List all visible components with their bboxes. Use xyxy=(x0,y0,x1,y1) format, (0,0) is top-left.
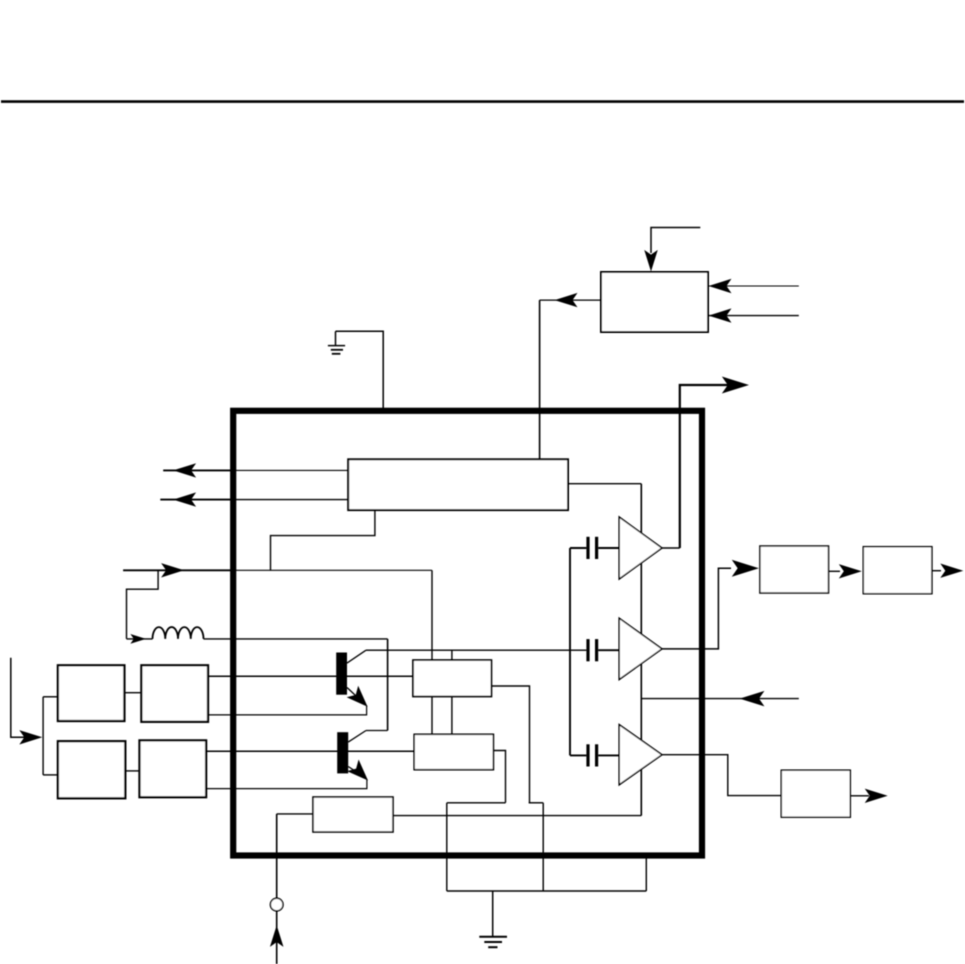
arrow top output xyxy=(722,377,749,394)
arrow into U-top input 1 xyxy=(709,279,732,293)
wire U-top output to wide register xyxy=(540,299,601,301)
arrow right left-input xyxy=(19,730,42,744)
wire B1 output to rail xyxy=(662,547,680,549)
wire mid input arrow row xyxy=(641,698,799,700)
box A xyxy=(58,665,125,721)
wire collector stub to box U1 xyxy=(451,650,453,660)
terminal lower lead xyxy=(276,911,278,964)
box U3 (bottom left) xyxy=(313,797,393,832)
wire left out 1 inside xyxy=(233,469,348,471)
wire B2 output to R1 xyxy=(662,568,731,649)
capacitor C3 xyxy=(570,744,619,766)
wire Q1 base line xyxy=(208,675,413,677)
wire U1 output to pad xyxy=(491,686,529,803)
wire input row y570 inside xyxy=(233,569,432,571)
box U2 xyxy=(414,734,493,769)
wire input row y570 outside xyxy=(123,569,233,571)
arrow R3 out xyxy=(865,789,888,803)
wire U2 output to pad xyxy=(493,751,505,803)
wire stub to box C xyxy=(43,774,58,776)
terminal circle xyxy=(270,898,283,911)
arrow into U-top input 2 xyxy=(709,308,732,322)
wire left out 2 inside xyxy=(233,499,348,501)
arrow down into U-top xyxy=(644,250,658,272)
buffer amp B1 xyxy=(619,517,662,579)
wire A-B xyxy=(124,692,141,694)
wire U3 right to rail xyxy=(393,815,641,817)
wire left out 1 outside xyxy=(163,469,233,471)
wire splitter vertical xyxy=(42,697,44,775)
arrow up terminal xyxy=(270,925,284,947)
wire Q2 base line xyxy=(206,750,414,752)
wire left out 2 outside xyxy=(160,499,233,501)
wire step down to inductor xyxy=(127,570,159,639)
IC main box (thick) xyxy=(233,411,702,856)
wire stub to box A xyxy=(43,696,58,698)
wire Q1 collector row xyxy=(366,649,586,651)
capacitor C1 xyxy=(570,537,619,559)
wire R2 out xyxy=(932,570,941,572)
box U1 xyxy=(413,660,491,696)
terminal stem xyxy=(276,814,278,898)
left input stem xyxy=(11,658,32,738)
wire Q1 emitter return xyxy=(208,706,367,715)
wire R3 out xyxy=(850,795,869,797)
wire top output rail x680 xyxy=(680,385,728,548)
capacitor C2 xyxy=(586,639,619,661)
wire U3 left to terminal xyxy=(277,813,313,815)
wire U-top input 1 xyxy=(708,285,799,287)
wire register output rail right xyxy=(568,483,641,485)
box R2 xyxy=(863,547,932,594)
arrow left on U-top output xyxy=(555,293,578,307)
wire U1-U2 link 1 xyxy=(431,697,433,735)
wire inductor to rail xyxy=(204,638,388,640)
wire into U-top top xyxy=(651,228,700,254)
wire stub to inductor xyxy=(127,638,153,640)
buffer amp B3 xyxy=(619,725,662,785)
wire rail x641 xyxy=(640,484,642,816)
wire U1-U2 link 2 xyxy=(451,697,453,735)
wire Q2 emitter return xyxy=(206,779,367,788)
box C xyxy=(58,741,125,798)
ground G2 xyxy=(479,891,507,947)
transistor Q1 xyxy=(336,650,373,712)
top rule xyxy=(1,100,964,103)
inductor L1 xyxy=(153,627,204,639)
capacitor input rail x570 xyxy=(569,548,571,755)
wide register box xyxy=(348,459,568,510)
box B xyxy=(141,665,208,722)
buffer amp B2 xyxy=(619,618,662,679)
wire y570 down to box U1 xyxy=(431,570,433,660)
box D xyxy=(140,740,207,797)
wire U-top input 2 xyxy=(708,315,799,317)
wire down into wide register top xyxy=(539,300,541,460)
wire B3 output to R3 xyxy=(662,755,781,796)
ground G1 xyxy=(328,331,345,354)
arrow into R1 xyxy=(732,560,759,577)
wire ground G1 to IC top xyxy=(336,331,384,408)
box R3 xyxy=(781,770,850,817)
arrow R2 out xyxy=(940,564,963,578)
arrow left mid input xyxy=(740,691,765,707)
wire C-D xyxy=(125,770,139,772)
wire rail down to Q2 collector xyxy=(387,639,389,731)
arrow left out 2 xyxy=(173,492,196,506)
arrow into inductor xyxy=(130,634,146,644)
arrow left out 1 xyxy=(173,463,196,477)
pad / ground frame xyxy=(447,803,647,891)
wire R1 to R2 xyxy=(829,570,841,572)
arrow right y570 xyxy=(161,563,184,577)
transistor Q2 xyxy=(337,731,387,787)
box R1 xyxy=(760,546,829,593)
box U-top (top right) xyxy=(601,272,708,332)
arrow into R2 xyxy=(839,564,862,578)
wire register bottom step xyxy=(271,510,375,570)
